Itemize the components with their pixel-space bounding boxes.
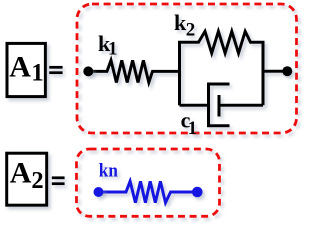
svg-text:2: 2 — [31, 167, 43, 194]
svg-text:1: 1 — [188, 118, 198, 139]
svg-text:kn: kn — [99, 160, 118, 181]
svg-text:2: 2 — [186, 20, 196, 41]
svg-text:A: A — [10, 157, 32, 190]
svg-text:1: 1 — [108, 39, 118, 60]
svg-text:A: A — [9, 50, 31, 83]
svg-text:1: 1 — [31, 59, 44, 86]
